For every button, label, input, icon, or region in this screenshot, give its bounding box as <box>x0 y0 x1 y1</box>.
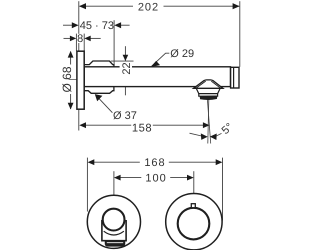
ext line left lower (158) <box>78 110 80 131</box>
svg-text:Ø 68: Ø 68 <box>60 66 74 92</box>
spout inner circle <box>178 208 210 240</box>
label 8 <box>77 34 82 43</box>
escutcheon circle right <box>166 194 222 250</box>
wall plate <box>77 51 84 109</box>
svg-text:45 · 73: 45 · 73 <box>80 20 114 32</box>
handle inner arc <box>104 231 124 235</box>
ext 168 right <box>222 158 224 221</box>
aerator tent inner lines <box>196 81 221 88</box>
ext 168 left <box>86 158 88 212</box>
dim 22 line <box>124 46 126 60</box>
o37 arrow <box>95 94 103 101</box>
aerator housing <box>197 89 220 94</box>
8 right (points left) <box>84 36 90 42</box>
5deg arrow tails <box>190 133 203 136</box>
ext 100 left <box>113 171 115 194</box>
SIDE VIEW geometry <box>77 51 239 109</box>
svg-text:158: 158 <box>132 123 152 135</box>
label 22 <box>120 62 132 75</box>
o68 up <box>68 51 74 58</box>
dim 8 tails <box>64 37 71 39</box>
ext line right (202) <box>239 1 241 67</box>
svg-text:100: 100 <box>145 172 166 184</box>
aerator tent <box>194 80 223 88</box>
aerator foot <box>199 94 218 97</box>
end cap <box>231 67 239 88</box>
202 left <box>79 3 86 9</box>
svg-text:168: 168 <box>144 157 165 169</box>
svg-text:Ø 37: Ø 37 <box>113 110 137 122</box>
5deg right (points left) <box>210 134 217 141</box>
ext lines 8 <box>75 34 77 51</box>
ext 22 horiz at plateau top <box>111 60 134 62</box>
dim o68 line <box>70 52 72 65</box>
100 right <box>187 175 194 181</box>
collar bottom <box>84 87 114 93</box>
5deg left (points right) <box>201 133 208 140</box>
45-73 left (points right) <box>72 22 79 28</box>
dim 168 line <box>93 161 139 163</box>
o68 down <box>68 103 74 110</box>
BOTTOM VIEW geometry <box>87 194 222 250</box>
aerator outlet disc <box>200 96 217 100</box>
svg-text:8: 8 <box>77 33 83 45</box>
spout pipe <box>84 67 230 87</box>
ext line right (45-73) <box>113 20 115 66</box>
100 left <box>114 175 121 181</box>
o37 leader <box>96 95 113 113</box>
dim 45-73 line <box>63 24 72 26</box>
handle knob <box>103 209 125 231</box>
collar top <box>84 61 114 67</box>
handle dark base <box>105 241 125 246</box>
ext line left (202/45-73) <box>78 1 80 51</box>
centerline <box>69 79 77 81</box>
svg-text:22: 22 <box>121 62 133 74</box>
5deg stream line B <box>207 99 210 143</box>
handle base white line <box>107 242 123 244</box>
202 right <box>233 3 240 9</box>
handle skirt <box>102 220 126 241</box>
o29 leader <box>152 53 170 66</box>
158 left <box>79 122 86 128</box>
ext 100 right <box>193 171 195 193</box>
158 right <box>203 122 210 128</box>
collar top inner line <box>93 61 110 65</box>
dim 202 line <box>80 5 134 7</box>
5deg stream line A <box>208 99 209 143</box>
22 down <box>123 55 129 61</box>
spout notch <box>191 204 195 208</box>
svg-text:Ø 29: Ø 29 <box>170 48 194 60</box>
end cap inner line <box>233 67 235 88</box>
escutcheon circle left <box>87 195 140 248</box>
arrowheads <box>68 3 240 180</box>
8 left (points right) <box>70 36 76 42</box>
o29 arrow <box>151 61 160 67</box>
168 right <box>216 159 223 165</box>
dim 100 line <box>119 177 141 179</box>
45-73 right (points left) <box>114 22 121 28</box>
22 up <box>123 80 129 86</box>
168 left <box>88 159 95 165</box>
dim 158 line <box>85 124 131 126</box>
svg-text:202: 202 <box>138 2 159 14</box>
